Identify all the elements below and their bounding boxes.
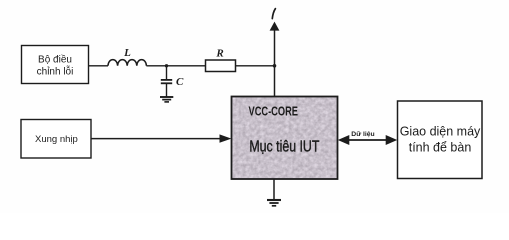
box: Giao diện máy tính để bàn [398,101,483,179]
svg-text:Xung nhịp: Xung nhịp [35,134,78,145]
svg-text:tính để bàn: tính để bàn [409,140,472,154]
svg-text:R: R [215,48,223,60]
current arrow I [270,9,280,97]
box U1: Mục tiêu IUT (VCC-CORE) [232,97,338,180]
resistor R [206,48,236,72]
wire: resistor to node [236,65,275,67]
wire: IUT to ground [273,179,275,200]
wire: inductor to resistor [146,65,205,67]
box: Bộ điều chỉnh lỗi [22,46,89,84]
arrow: clock to IUT [91,134,231,142]
wire: regulator to inductor [89,65,109,67]
svg-text:Giao diện máy: Giao diện máy [400,124,481,138]
node: junction under current arrow [273,64,277,68]
svg-text:VCC-CORE: VCC-CORE [249,105,299,119]
inductor L [108,47,146,66]
node: junction at capacitor tap [165,64,168,67]
ground (below capacitor) [160,97,173,102]
svg-text:L: L [123,47,131,59]
svg-text:Dữ liệu: Dữ liệu [351,131,374,138]
svg-text:C: C [176,76,184,88]
svg-text:Mục tiêu IUT: Mục tiêu IUT [249,139,319,156]
svg-text:Bộ điều: Bộ điều [38,53,72,65]
svg-text:chỉnh lỗi: chỉnh lỗi [37,64,74,77]
ground (below IUT) [267,200,281,206]
box: Xung nhịp [21,120,91,159]
double arrow: Dữ liệu [338,131,397,145]
capacitor C [161,66,184,97]
